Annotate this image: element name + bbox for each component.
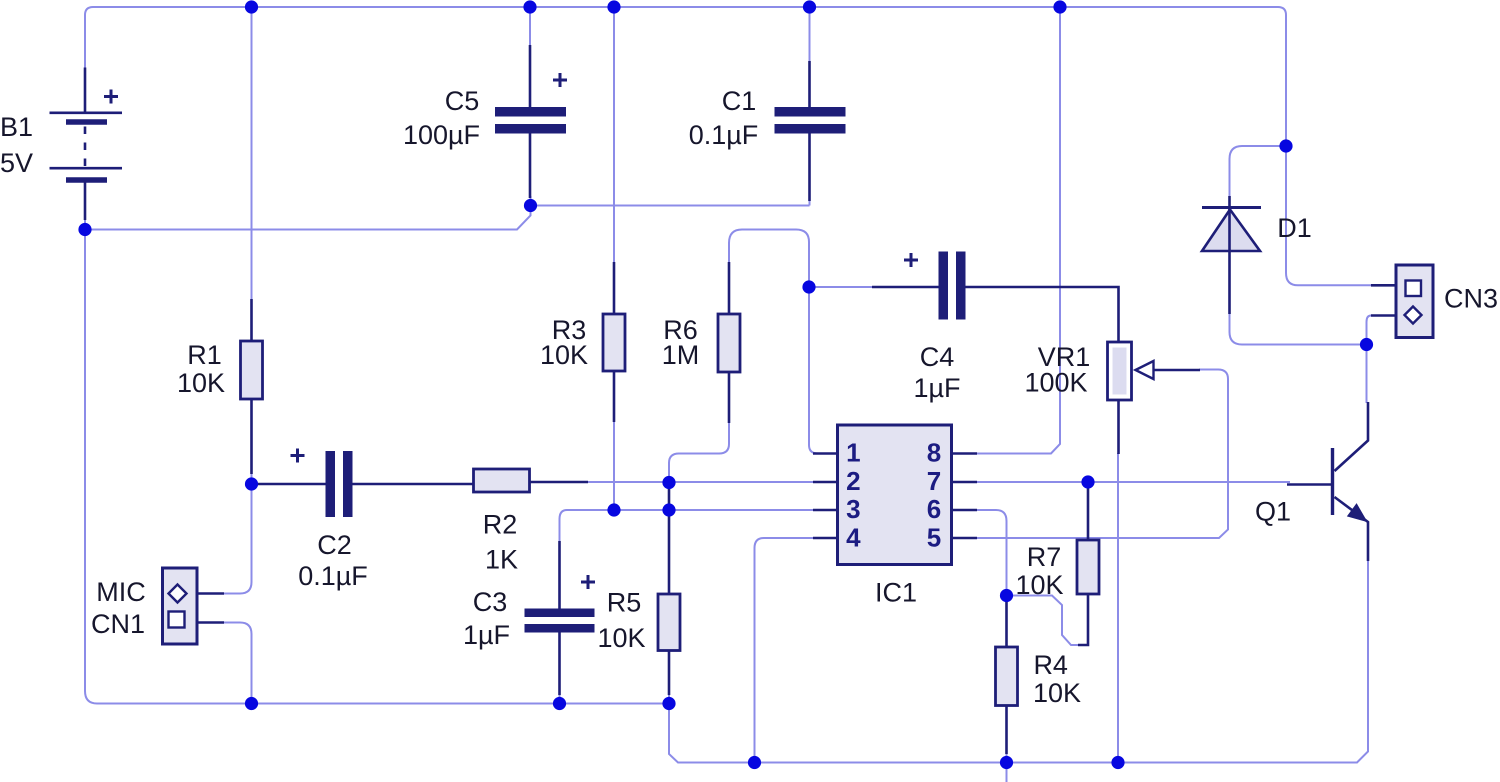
transistor Q1 emitter: [1335, 497, 1369, 561]
wire ground rail drop at R5 node: [669, 561, 1368, 763]
resistor R7 body: [1077, 540, 1099, 594]
svg-text:1M: 1M: [662, 340, 700, 370]
svg-text:C5: C5: [445, 86, 480, 116]
svg-text:R1: R1: [187, 340, 222, 370]
connector CN3 diamond pin: [1405, 307, 1422, 324]
capacitor C3 leads: [558, 541, 561, 695]
node ground-CN1: [245, 697, 258, 710]
svg-text:R4: R4: [1033, 650, 1068, 680]
resistor R6 leads: [728, 262, 731, 423]
svg-text:C2: C2: [317, 530, 352, 560]
diode D1 cathode bar: [1202, 206, 1261, 209]
svg-text:B1: B1: [0, 112, 33, 142]
resistor R4 leads: [1005, 596, 1008, 755]
wire C4 node to C4 left plate: [809, 286, 873, 288]
resistor R6 body: [718, 314, 740, 372]
svg-text:10K: 10K: [540, 340, 588, 370]
capacitor C3 plus: [581, 575, 595, 589]
transistor Q1 base lead: [1287, 483, 1333, 486]
svg-text:10K: 10K: [597, 623, 645, 653]
wire rail to R1: [251, 7, 253, 300]
node pin7-R7: [1081, 475, 1094, 488]
wire R4 bottom off-page: [1006, 753, 1008, 782]
resistor R4 body: [996, 647, 1018, 706]
diode D1 leads: [1228, 196, 1231, 314]
battery B1 leads: [84, 68, 87, 221]
capacitor C5 leads: [529, 45, 532, 198]
svg-text:Q1: Q1: [1255, 497, 1291, 527]
wire pin 5 to VR1 wiper: [975, 370, 1228, 539]
wire CN3 node to Q1 collector: [1366, 345, 1368, 404]
svg-text:10K: 10K: [1015, 570, 1063, 600]
resistor R3 body: [603, 314, 625, 371]
svg-text:10K: 10K: [177, 368, 225, 398]
capacitor C4 plates: [939, 252, 949, 320]
transistor Q1 collector: [1335, 402, 1369, 471]
battery plus sign: [104, 90, 118, 104]
potentiometer VR1 arrow: [1136, 361, 1154, 379]
svg-text:5: 5: [927, 522, 941, 552]
wire C4 node down to pin 1: [809, 287, 818, 454]
node CN3-D1-Q1: [1360, 338, 1373, 351]
node C5 bottom: [524, 199, 537, 212]
capacitor C4 plus: [904, 253, 918, 267]
capacitor C1 leads: [808, 61, 811, 201]
capacitor C4 leads: [872, 287, 1119, 342]
potentiometer VR1 inner panel: [1113, 348, 1127, 395]
node rail-pin8: [1053, 0, 1066, 13]
node R1-C2-CN1: [245, 477, 258, 490]
wire R6 bottom jog to pin2 node: [669, 422, 729, 483]
resistor R2 body: [474, 469, 530, 492]
transistor Q1 emitter arrow: [1349, 505, 1366, 521]
node pin3-R5: [662, 503, 675, 516]
wire D1 branch top: [1230, 146, 1287, 199]
wire CN1 pin1 to R1 node: [224, 484, 252, 594]
capacitor C5 plates: [495, 107, 566, 117]
svg-text:C4: C4: [920, 342, 955, 372]
potentiometer VR1 body: [1108, 342, 1132, 400]
wire VR1 bottom to ground: [1117, 453, 1119, 763]
wire CN3 pin2 to node: [1367, 316, 1372, 345]
wire R6 top jog to C4 node: [729, 230, 809, 288]
wire C3 bottom: [559, 694, 561, 704]
wire rail to R3: [613, 7, 615, 263]
svg-text:100K: 100K: [1024, 368, 1087, 398]
resistor R2 right lead: [530, 481, 589, 484]
wire battery minus to C5 bottom: [85, 206, 531, 230]
connector CN3 body: [1396, 265, 1433, 338]
battery B1 dashed center: [84, 127, 87, 167]
svg-text:R7: R7: [1027, 542, 1062, 572]
wire battery minus down to ground rail: [85, 219, 669, 704]
svg-text:5V: 5V: [0, 148, 33, 178]
transistor Q1 base bar: [1331, 448, 1334, 515]
svg-text:7: 7: [927, 466, 941, 496]
wire pin 7 line: [975, 481, 1290, 483]
node C4-R6-pin1: [802, 280, 815, 293]
svg-text:CN3: CN3: [1444, 284, 1498, 314]
connector CN1 diamond pin: [169, 585, 187, 603]
svg-text:1µF: 1µF: [463, 620, 510, 650]
wire rail to IC pin 8: [975, 7, 1060, 454]
wire rail to C1: [809, 7, 811, 62]
svg-text:4: 4: [846, 522, 861, 552]
resistor R7 leads: [1078, 482, 1088, 645]
node D1 top: [1279, 139, 1292, 152]
connector CN1 body: [163, 568, 198, 644]
wire R3 bottom to pin3 node: [613, 421, 615, 510]
node ground-VR1: [1111, 756, 1124, 769]
svg-text:CN1: CN1: [91, 609, 145, 639]
wire pin 6 drop to R4 node: [975, 510, 1007, 596]
VR1 bottom lead: [1117, 400, 1120, 454]
svg-text:0.1µF: 0.1µF: [689, 120, 759, 150]
resistor R1 leads: [250, 299, 253, 474]
capacitor C2 leads: [252, 483, 475, 486]
node ground-R4: [1000, 756, 1013, 769]
wire pin 3 line: [567, 509, 813, 511]
diode D1 center lead through triangle: [1228, 209, 1231, 251]
svg-text:IC1: IC1: [875, 578, 917, 608]
resistor R3 leads: [613, 262, 616, 422]
resistor R5 body: [658, 594, 680, 651]
svg-text:R5: R5: [607, 588, 642, 618]
CAP PLATES (thick bars): [326, 107, 966, 633]
node ground-pin4: [748, 756, 761, 769]
wire pin 2 line: [587, 481, 813, 483]
node ground-C3: [553, 697, 566, 710]
CN1 pin leads: [197, 594, 224, 623]
capacitor C1 plates: [775, 107, 846, 117]
resistor R1 body: [241, 341, 263, 399]
wire C5 bottom to C1 bottom: [531, 196, 810, 206]
wire D1 anode to CN3 node: [1230, 313, 1367, 345]
CN3 pin leads: [1371, 285, 1396, 315]
wire C3 top drop: [560, 510, 568, 542]
diode D1 triangle: [1202, 210, 1260, 252]
svg-text:10K: 10K: [1033, 678, 1081, 708]
svg-text:R2: R2: [483, 510, 518, 540]
wire pin 4 to ground: [755, 538, 814, 763]
capacitor C2 plates: [326, 451, 336, 517]
node pin3-R3: [607, 503, 620, 516]
node rail-R3: [607, 0, 620, 13]
wire D1 node to CN3 pin1: [1286, 146, 1371, 285]
connector CN1 square pin: [169, 612, 185, 628]
capacitor C2 plus: [291, 449, 305, 463]
svg-text:100µF: 100µF: [403, 120, 480, 150]
svg-text:2: 2: [846, 466, 860, 496]
capacitor C3 plates: [525, 609, 595, 618]
svg-text:MIC: MIC: [96, 577, 146, 607]
svg-text:8: 8: [927, 438, 941, 468]
wire CN1 pin2 to ground: [224, 623, 252, 704]
connector CN3 square pin: [1406, 281, 1422, 297]
node rail-C5: [523, 0, 536, 13]
svg-text:6: 6: [927, 494, 941, 524]
svg-text:1: 1: [846, 438, 860, 468]
IC1 pin leads: [813, 454, 977, 539]
wire rail to C5: [529, 7, 531, 46]
VR1 wiper line: [1154, 369, 1201, 372]
RESISTOR BODIES: [241, 314, 1100, 706]
battery B1 plates: [50, 113, 123, 168]
wire R5 bottom: [668, 694, 670, 704]
node pin6-R4: [1000, 589, 1013, 602]
svg-text:0.1µF: 0.1µF: [298, 561, 368, 591]
node pin2: [662, 476, 675, 489]
R5 top lead and pin2-pin3 tie: [668, 483, 671, 595]
node battery minus: [78, 223, 91, 236]
node ground-R5: [662, 697, 675, 710]
IC1 body: [838, 425, 952, 565]
node rail-R1: [245, 0, 258, 13]
wire main power/ground loop: [85, 7, 1286, 146]
capacitor C5 plus: [553, 73, 567, 87]
svg-text:3: 3: [846, 494, 860, 524]
wire R4 node jog to R7 bottom: [1007, 596, 1080, 646]
svg-text:D1: D1: [1277, 213, 1312, 243]
resistor R5 bottom lead: [668, 651, 671, 696]
svg-text:C3: C3: [473, 587, 508, 617]
svg-text:C1: C1: [722, 86, 757, 116]
node rail-C1: [803, 0, 816, 13]
svg-text:1K: 1K: [485, 545, 518, 575]
wire R1 bottom gap: [251, 473, 253, 484]
svg-text:1µF: 1µF: [913, 373, 960, 403]
